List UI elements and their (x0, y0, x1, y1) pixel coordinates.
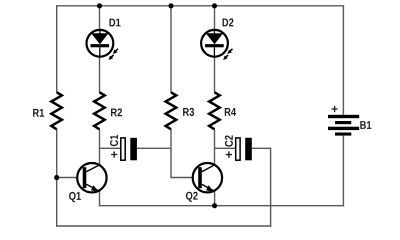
label Q2 (186, 192, 198, 202)
wire D2 to R4 (214, 56, 216, 93)
wire emitter ground rail (100, 205, 345, 207)
label D2 (223, 18, 234, 26)
capacitor C2 positive plate (236, 138, 240, 160)
capacitor C1 negative plate (130, 138, 137, 161)
junction dot top rail at D1 branch (97, 3, 102, 8)
resistor R1 (51, 92, 62, 129)
wire C1 left lead (100, 147, 121, 149)
wire left rail (top rail to R1) (56, 5, 58, 92)
wire Q1 base lead (57, 177, 83, 179)
label Q1 (69, 192, 81, 202)
LED D2 (201, 30, 232, 60)
label C2 (225, 135, 233, 146)
wire D1 to R2 (99, 56, 101, 93)
wire R3 bottom to Q2 base (171, 129, 198, 177)
label R2 (111, 108, 122, 116)
wire left rail (R1 bottom through Q1 base node to bottom wire) (56, 129, 58, 226)
capacitor C1 positive plate (121, 138, 125, 160)
junction dot top rail at R3 branch (168, 3, 173, 8)
wire C1 right lead to R3 branch (137, 147, 171, 149)
capacitor C2 negative plate (245, 138, 252, 161)
wire R3 branch from top rail (170, 6, 172, 93)
wire Q1 emitter drop (99, 191, 101, 207)
transistor Q2 (193, 163, 222, 192)
label R4 (225, 108, 236, 116)
junction dot Q2 emitter on ground rail (212, 203, 217, 208)
label R1 (33, 109, 44, 117)
label C1 (110, 135, 118, 146)
resistor R2 (94, 92, 105, 129)
wire D2 branch from top rail (214, 6, 216, 31)
wire D1 branch from top rail (99, 6, 101, 31)
junction dot Q1 base node on left rail (54, 175, 59, 180)
label R3 (183, 108, 194, 116)
junction dot top rail at D2 branch (212, 3, 217, 8)
wire Q2 emitter drop (214, 191, 216, 206)
label B1 (360, 121, 371, 129)
wire battery positive lead (342, 5, 344, 115)
label B1 plus (331, 106, 337, 112)
wire C2 right riser (252, 148, 271, 226)
label C1 plus (111, 151, 117, 157)
resistor R3 (166, 92, 177, 129)
battery B1 (328, 115, 359, 136)
wire R4 to Q2 collector (214, 129, 216, 165)
wire bottom (Q1 base node rail to C2 riser) (56, 225, 271, 227)
LED D1 (87, 30, 118, 60)
wire R2 to Q1 collector (99, 129, 101, 165)
wire C2 left lead (215, 147, 236, 149)
wire top positive rail (56, 5, 344, 7)
wire battery negative lead (342, 136, 344, 207)
transistor Q1 (77, 163, 106, 192)
label D1 (109, 19, 120, 27)
label C2 plus (226, 151, 232, 157)
resistor R4 (209, 92, 220, 129)
